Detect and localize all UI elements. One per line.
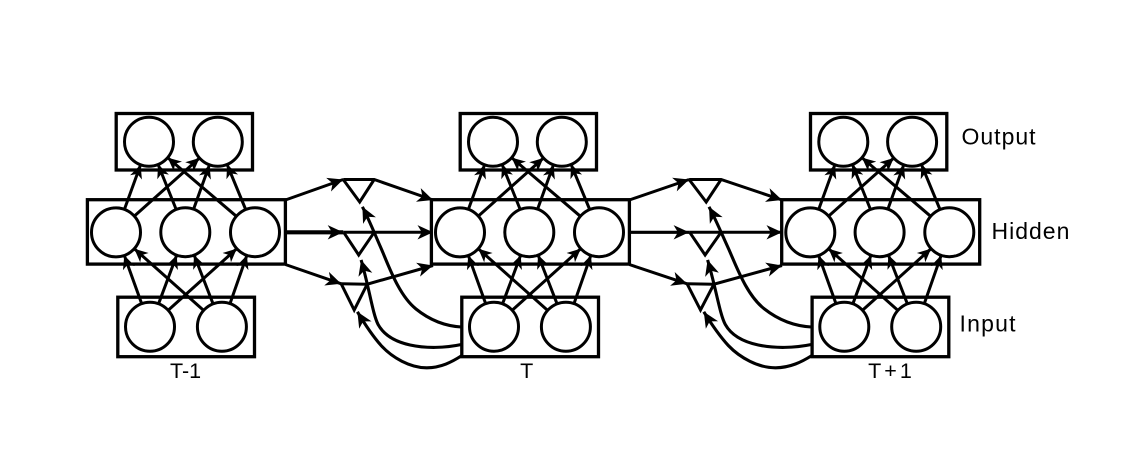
arrow input2->hidden2 T+1 [888, 255, 907, 304]
arrow input2->hidden3 T [574, 255, 591, 303]
arrow hidden2->output2 T [538, 165, 554, 209]
arrow input1->hidden2 T+1 [853, 255, 871, 304]
arrow input1->hidden1 T-1 [124, 255, 141, 303]
input unit 2 T [541, 302, 590, 351]
arrow input1->hidden2 T [503, 255, 521, 304]
hidden unit 1 T+1 [786, 208, 835, 257]
recurrent bus bottom, segment 1 (T-1 to T) [285, 265, 341, 284]
svg-text:T-1: T-1 [170, 359, 201, 383]
arrow input1->hidden2 T-1 [159, 255, 177, 304]
arrow hidden3->output1 T [512, 158, 581, 217]
arrow input2->hidden2 T-1 [194, 255, 213, 304]
svg-text:Hidden: Hidden [992, 218, 1071, 244]
recurrent bus middle, segment 1 (T-1 to T) [285, 230, 343, 234]
output unit 1 T [469, 117, 518, 166]
arrow hidden3->output1 T+1 [862, 158, 931, 217]
curved arrow to bottom fork (T-1 to T) [357, 312, 462, 368]
recurrent bus middle, segment 1 (T to T+1) [629, 231, 689, 234]
curved arrow to middle fork (T to T+1) [708, 260, 812, 347]
output unit 2 T [537, 117, 586, 166]
input unit 1 T+1 [820, 302, 869, 351]
arrow hidden1->output2 T [478, 158, 543, 216]
arrow hidden1->output1 T [468, 165, 484, 210]
junction fork bottom (T-1 to T) [341, 284, 367, 310]
recurrent bus top, segment 1 (T to T+1) [629, 180, 689, 201]
arrow hidden1->output2 T+1 [829, 158, 894, 216]
hidden unit 2 T-1 [161, 208, 210, 257]
curved arrow to middle fork (T-1 to T) [361, 260, 461, 347]
hidden unit 3 T-1 [231, 208, 280, 257]
junction fork middle (T-1 to T) [344, 232, 375, 255]
input unit 1 T-1 [126, 302, 175, 351]
arrow hidden3->output2 T [571, 164, 590, 209]
arrow input1->hidden3 T [512, 249, 581, 311]
arrow input2->hidden3 T+1 [924, 255, 941, 303]
arrow input2->hidden1 T [478, 249, 547, 311]
curved arrow to top fork (T-1 to T) [362, 207, 461, 327]
output box T+1 [811, 114, 947, 171]
output unit 2 T+1 [888, 117, 937, 166]
junction fork top (T to T+1) [689, 180, 721, 203]
arrow input2->hidden2 T [538, 255, 557, 304]
arrow hidden2->output2 T-1 [194, 165, 210, 209]
arrow hidden2->output2 T+1 [888, 165, 904, 209]
output box T [460, 114, 596, 171]
recurrent bus top, segment 2 (T-1 to T) [343, 180, 433, 201]
arrow hidden1->output2 T-1 [134, 158, 199, 216]
arrow hidden2->output1 T [502, 164, 520, 209]
arrow hidden1->output1 T-1 [124, 165, 140, 210]
hidden unit 1 T-1 [92, 208, 141, 257]
recurrent bus middle, segment 2 (T-1 to T) [343, 231, 433, 234]
hidden box T-1 [87, 200, 285, 264]
input box T-1 [118, 297, 255, 357]
output unit 1 T-1 [125, 117, 174, 166]
arrow input2->hidden1 T+1 [829, 249, 898, 311]
arrow input1->hidden1 T [468, 255, 485, 303]
hidden box T [431, 200, 629, 264]
recurrent bus bottom, segment 1 (T to T+1) [629, 265, 687, 284]
hidden unit 3 T+1 [925, 208, 974, 257]
curved arrow to top fork (T to T+1) [709, 207, 811, 327]
recurrent bus top, segment 2 (T to T+1) [689, 180, 782, 201]
hidden unit 1 T [436, 208, 485, 257]
arrow input2->hidden3 T-1 [230, 255, 247, 303]
arrow hidden3->output1 T-1 [168, 158, 237, 217]
junction fork top (T-1 to T) [343, 180, 374, 203]
hidden unit 2 T [505, 208, 554, 257]
svg-text:T+1: T+1 [868, 359, 915, 383]
hidden unit 3 T [575, 208, 624, 257]
arrow hidden3->output2 T+1 [921, 164, 940, 209]
recurrent bus bottom, segment 2 (T to T+1) [687, 266, 782, 285]
recurrent bus middle, segment 2 (T to T+1) [689, 231, 782, 234]
svg-text:Input: Input [960, 311, 1017, 337]
input box T [462, 297, 599, 357]
arrow input1->hidden1 T+1 [819, 255, 836, 303]
arrow hidden3->output2 T-1 [227, 164, 246, 209]
svg-text:T: T [520, 359, 533, 383]
arrow input1->hidden3 T-1 [168, 249, 237, 311]
arrow input2->hidden1 T-1 [134, 249, 203, 311]
curved arrow to bottom fork (T to T+1) [704, 312, 812, 368]
output box T-1 [116, 114, 252, 171]
input unit 1 T [470, 302, 519, 351]
input box T+1 [812, 297, 949, 357]
arrow input1->hidden3 T+1 [863, 249, 932, 311]
input unit 2 T+1 [892, 302, 941, 351]
arrow hidden2->output1 T+1 [852, 164, 870, 209]
svg-text:Output: Output [962, 124, 1037, 150]
recurrent bus bottom, segment 2 (T-1 to T) [341, 266, 433, 285]
hidden box T+1 [782, 200, 980, 264]
junction fork middle (T to T+1) [690, 232, 721, 255]
arrow hidden1->output1 T+1 [819, 165, 835, 210]
output unit 2 T-1 [193, 117, 242, 166]
junction fork bottom (T to T+1) [687, 284, 714, 310]
output unit 1 T+1 [819, 117, 868, 166]
hidden unit 2 T+1 [855, 208, 904, 257]
arrow hidden2->output1 T-1 [158, 164, 176, 209]
input unit 2 T-1 [197, 302, 246, 351]
recurrent bus top, segment 1 (T-1 to T) [285, 180, 343, 201]
